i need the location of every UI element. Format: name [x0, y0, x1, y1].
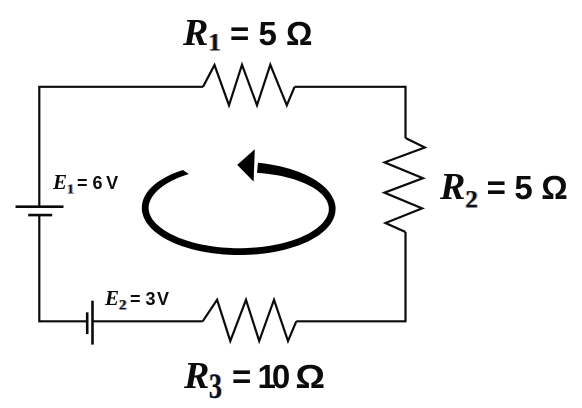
label E2 = 3 V	[105, 288, 169, 314]
resistor R3	[203, 300, 297, 341]
loop current arrow (counterclockwise tapered ellipse band)	[142, 163, 336, 255]
label R3 = 10 Ohm	[184, 357, 321, 404]
battery E1 short plate	[28, 214, 52, 217]
resistor R1	[203, 65, 295, 106]
resistor R2	[384, 138, 424, 232]
wire bottom middle segment	[93, 320, 203, 322]
loop current arrowhead	[237, 149, 255, 181]
battery E2 short plate	[86, 312, 89, 334]
battery E1 long plate	[16, 205, 64, 208]
wire bottom-left segment and left-lower vertical	[39, 215, 87, 321]
wire left-upper and top-left segment	[39, 87, 203, 207]
wire right-lower vertical and bottom-right segment	[296, 232, 405, 321]
label R1 = 5 Ohm	[183, 14, 312, 56]
battery E2 long plate	[91, 301, 94, 345]
label E1 = 6 V	[53, 172, 118, 198]
label R2 = 5 Ohm	[440, 168, 567, 213]
wire top-right segment and right-upper vertical	[295, 87, 406, 138]
